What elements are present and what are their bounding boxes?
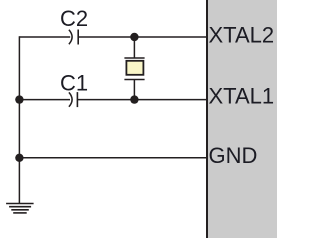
wire left vertical bus [18, 36, 20, 203]
junction dot GND/left bus [15, 154, 23, 162]
ground [6, 204, 33, 213]
pin label GND [209, 143, 258, 168]
svg-text:C2: C2 [60, 6, 88, 31]
junction dot XTAL1/crystal [130, 95, 138, 103]
wire crystal top stub [133, 37, 135, 58]
pin label XTAL1 [209, 83, 275, 108]
junction dot XTAL1/left bus [15, 95, 23, 103]
wire XTAL1 net left segment [19, 99, 70, 101]
capacitor C1 [69, 92, 78, 107]
pin label XTAL2 [209, 23, 275, 48]
label C1 [60, 70, 88, 95]
wire XTAL2 net right segment [78, 36, 206, 38]
capacitor C2 [69, 30, 78, 45]
wire crystal bottom stub [133, 80, 135, 100]
svg-text:GND: GND [209, 143, 258, 168]
IC block (microcontroller edge) [206, 0, 277, 238]
wire XTAL1 net right segment [77, 99, 206, 101]
label C2 [60, 6, 88, 31]
junction dot XTAL2/crystal [130, 33, 138, 41]
svg-text:XTAL2: XTAL2 [209, 23, 275, 48]
svg-text:XTAL1: XTAL1 [209, 83, 275, 108]
wire XTAL2 net left segment [19, 36, 70, 38]
wire GND net horizontal [19, 157, 206, 159]
crystal Y1 [124, 58, 144, 80]
svg-text:C1: C1 [60, 70, 88, 95]
